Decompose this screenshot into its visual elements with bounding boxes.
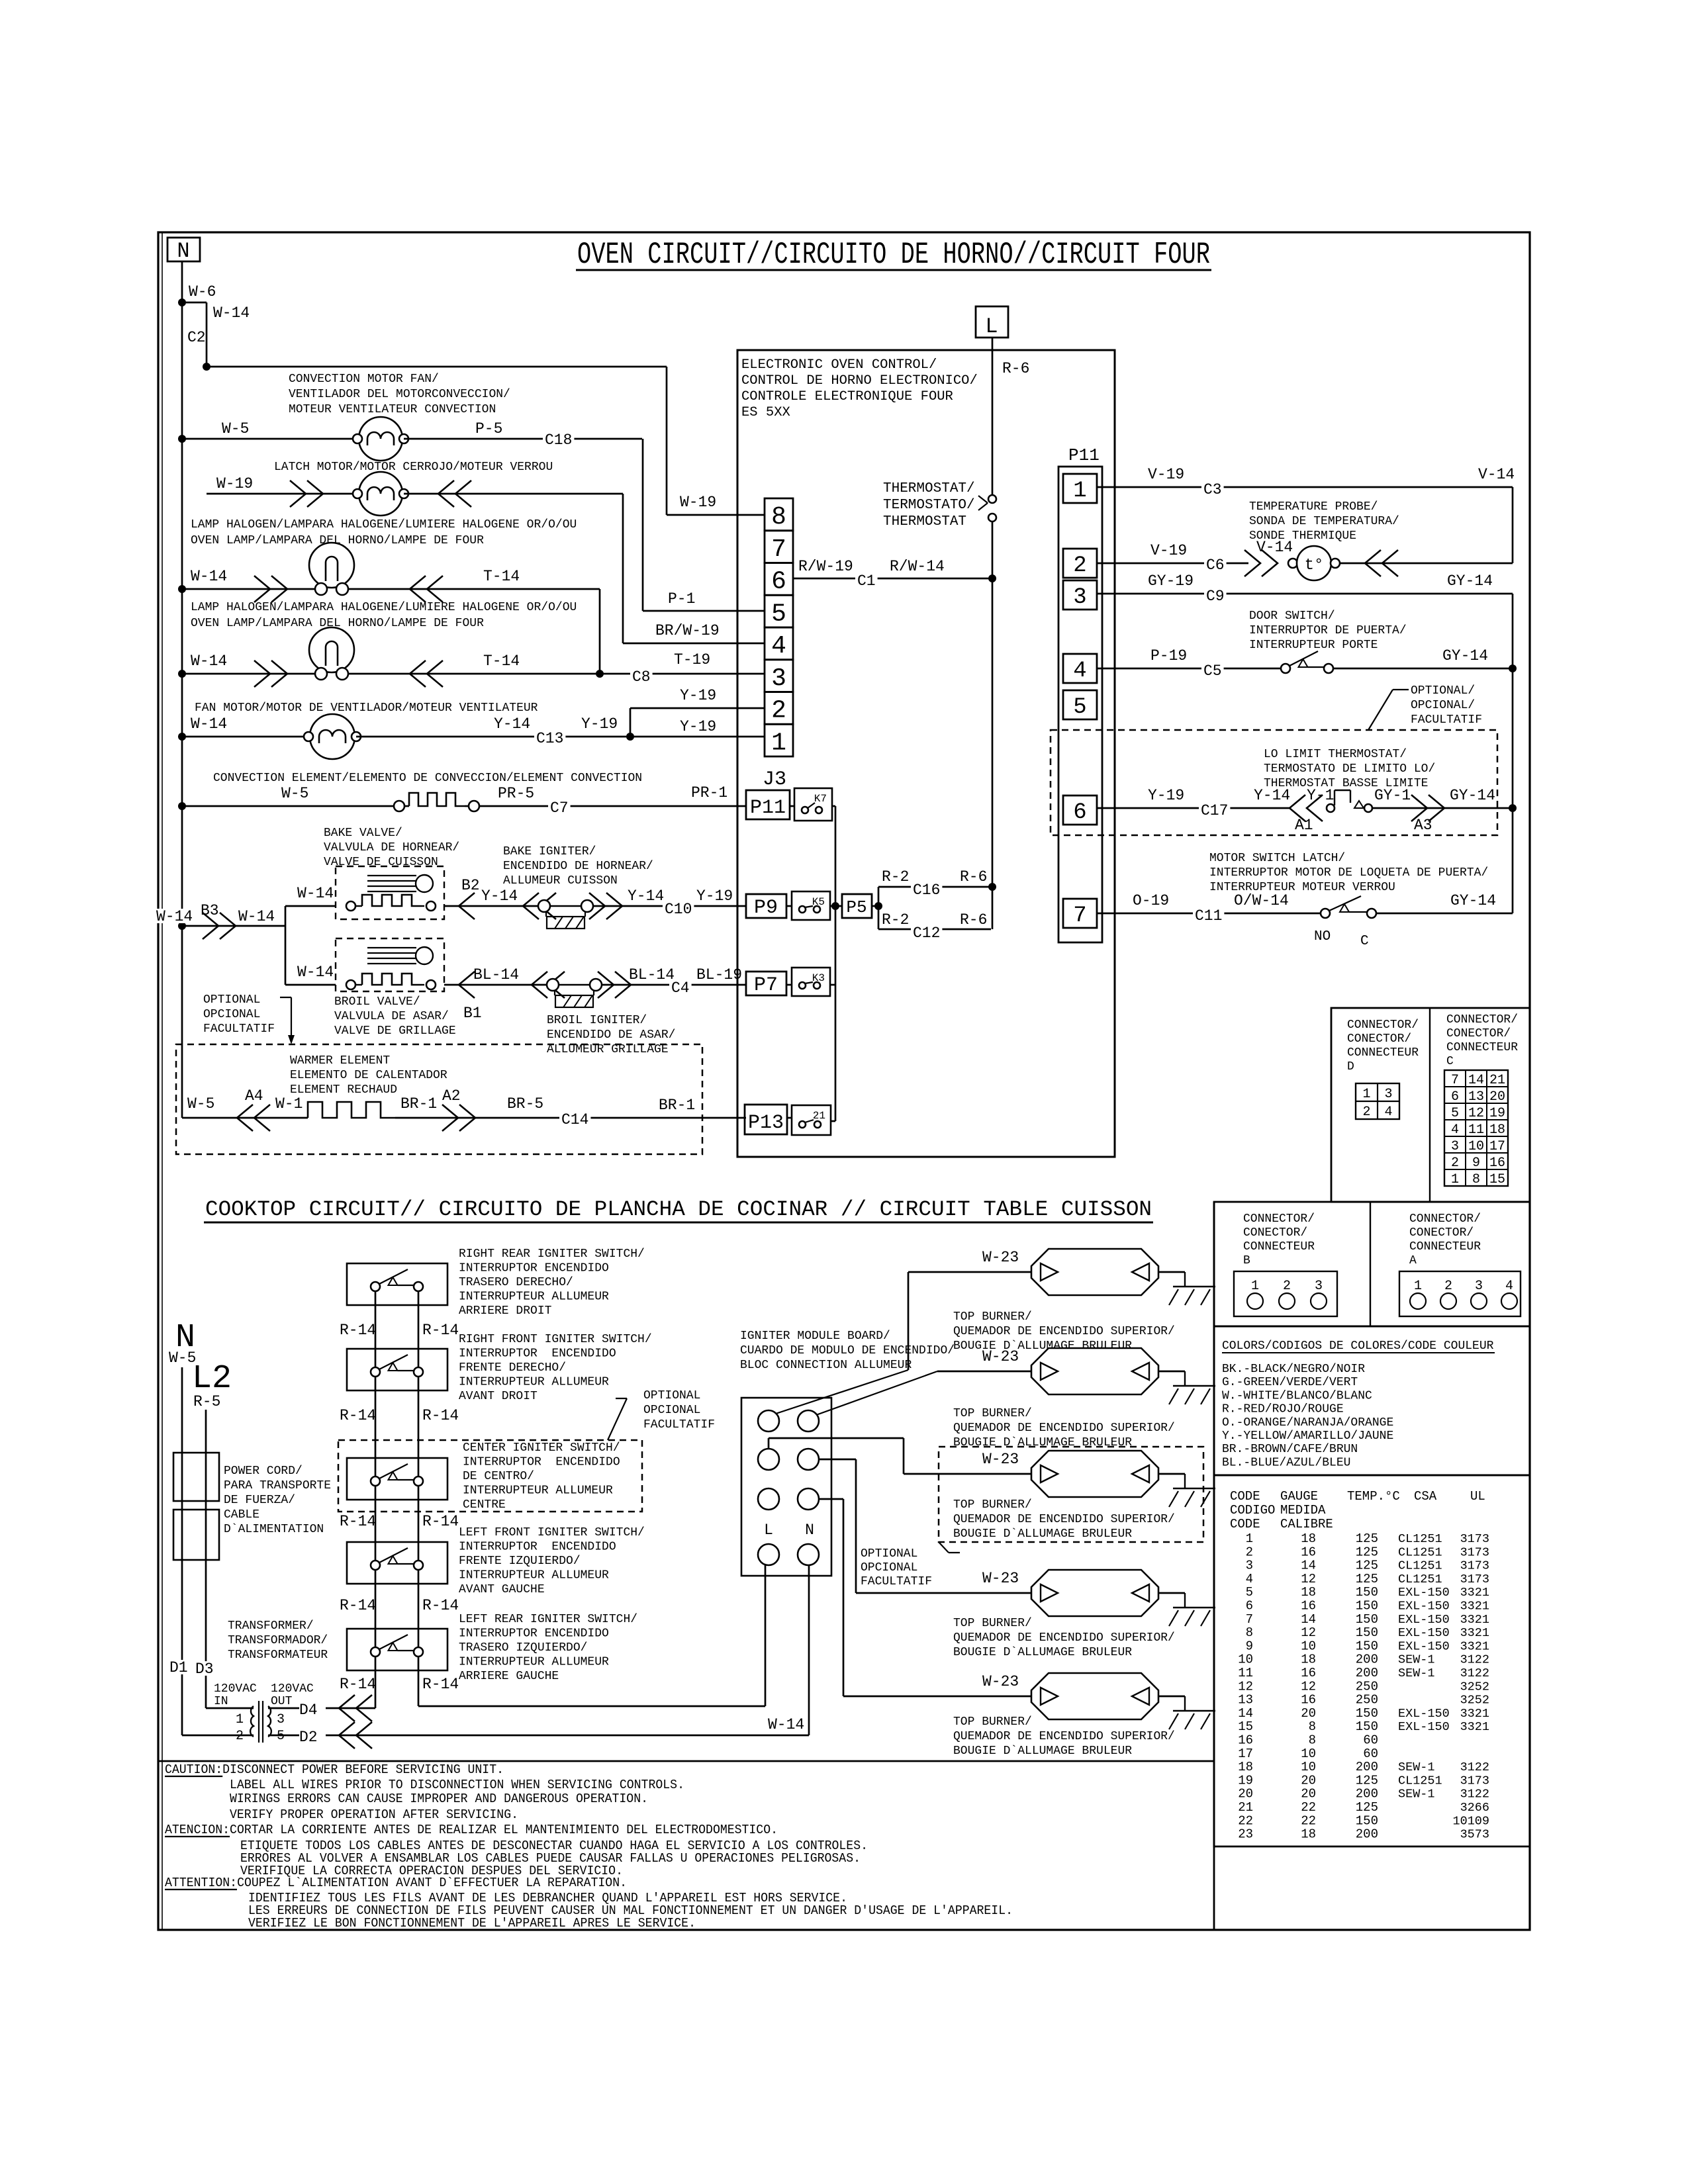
svg-text:OPTIONAL: OPTIONAL	[203, 993, 260, 1007]
svg-text:COOKTOP CIRCUIT// CIRCUITO DE: COOKTOP CIRCUIT// CIRCUITO DE PLANCHA DE…	[205, 1197, 1152, 1222]
svg-text:BL-14: BL-14	[473, 966, 519, 983]
svg-text:120VAC: 120VAC	[271, 1682, 314, 1696]
svg-text:W-14: W-14	[191, 653, 227, 670]
svg-text:LEFT FRONT IGNITER SWITCH/: LEFT FRONT IGNITER SWITCH/	[459, 1526, 645, 1539]
svg-text:C14: C14	[561, 1111, 588, 1128]
svg-text:IGNITER MODULE BOARD/: IGNITER MODULE BOARD/	[740, 1330, 890, 1343]
svg-text:CL1251: CL1251	[1398, 1532, 1442, 1546]
svg-text:CSA: CSA	[1414, 1489, 1437, 1504]
svg-text:1: 1	[1251, 1279, 1259, 1294]
svg-text:3173: 3173	[1460, 1774, 1489, 1788]
svg-text:16: 16	[1301, 1545, 1316, 1559]
svg-text:LEFT REAR IGNITER SWITCH/: LEFT REAR IGNITER SWITCH/	[459, 1613, 637, 1626]
wire PR-5 C7 PR-1 to P11	[479, 805, 746, 807]
svg-text:CONVECTION MOTOR FAN/: CONVECTION MOTOR FAN/	[289, 373, 439, 386]
svg-text:SONDA DE TEMPERATURA/: SONDA DE TEMPERATURA/	[1249, 515, 1399, 528]
svg-text:BL-19: BL-19	[696, 966, 742, 983]
svg-text:DE FUERZA/: DE FUERZA/	[224, 1494, 295, 1507]
svg-text:15: 15	[1489, 1172, 1505, 1187]
svg-text:TOP BURNER/: TOP BURNER/	[953, 1498, 1032, 1512]
svg-text:Y-19: Y-19	[1148, 787, 1184, 804]
svg-text:CALIBRE: CALIBRE	[1280, 1517, 1333, 1531]
colors box	[1214, 1326, 1530, 1475]
wire Y-14 C13 Y-19	[356, 736, 630, 738]
connector C grid	[1444, 1070, 1508, 1186]
pin 2	[1063, 549, 1097, 578]
node L (line terminal)	[976, 306, 1008, 338]
svg-text:3252: 3252	[1460, 1694, 1489, 1707]
ground chassis burner 3	[1158, 1473, 1185, 1475]
page border frame	[158, 232, 1530, 1930]
svg-text:22: 22	[1301, 1813, 1316, 1828]
svg-text:1: 1	[771, 729, 786, 757]
svg-text:V-14: V-14	[1478, 466, 1515, 483]
connector D grid	[1356, 1083, 1399, 1119]
svg-text:R-14: R-14	[422, 1513, 459, 1530]
svg-text:R-2: R-2	[882, 911, 909, 929]
warmer optional dashed box	[176, 1044, 702, 1154]
svg-text:CONNECTEUR: CONNECTEUR	[1446, 1041, 1518, 1054]
svg-text:INTERRUPTOR MOTOR DE LOQUETA D: INTERRUPTOR MOTOR DE LOQUETA DE PUERTA/	[1209, 866, 1488, 880]
svg-text:R-6: R-6	[960, 868, 987, 886]
svg-text:6: 6	[771, 568, 786, 596]
svg-text:C18: C18	[545, 432, 572, 449]
svg-text:EXL-150: EXL-150	[1398, 1639, 1450, 1653]
wire W-6 from N	[181, 261, 183, 302]
svg-text:IN: IN	[214, 1695, 228, 1708]
svg-text:Y-19: Y-19	[696, 887, 733, 905]
svg-text:POWER CORD/: POWER CORD/	[224, 1465, 303, 1478]
svg-text:23: 23	[1238, 1827, 1253, 1842]
igniter E1 bake	[538, 900, 550, 912]
svg-text:13: 13	[1468, 1089, 1484, 1105]
svg-text:CL1251: CL1251	[1398, 1545, 1442, 1559]
svg-text:K5: K5	[812, 896, 825, 908]
svg-text:R-14: R-14	[422, 1676, 459, 1693]
svg-text:C10: C10	[665, 901, 692, 918]
wire module to burner2	[816, 1371, 937, 1415]
svg-text:125: 125	[1356, 1800, 1378, 1815]
svg-text:16: 16	[1301, 1693, 1316, 1707]
node junction N / W-5	[178, 435, 186, 443]
svg-text:D1: D1	[169, 1659, 188, 1676]
svg-text:10: 10	[1301, 1760, 1316, 1774]
svg-text:4: 4	[1246, 1572, 1253, 1586]
svg-text:125: 125	[1356, 1545, 1378, 1559]
svg-text:W-14: W-14	[191, 568, 227, 585]
svg-text:SEW-1: SEW-1	[1398, 1653, 1435, 1667]
element R1 convection	[394, 801, 404, 811]
svg-text:MEDIDA: MEDIDA	[1280, 1503, 1326, 1518]
svg-text:RIGHT FRONT IGNITER SWITCH/: RIGHT FRONT IGNITER SWITCH/	[459, 1333, 652, 1346]
svg-text:12: 12	[1301, 1572, 1316, 1586]
svg-text:10: 10	[1468, 1139, 1484, 1154]
wire BL-14 broil igniter	[444, 984, 547, 986]
svg-text:21: 21	[1489, 1073, 1505, 1088]
igniter switch S7 center	[347, 1458, 447, 1500]
svg-text:BLOC CONNECTION ALLUMEUR: BLOC CONNECTION ALLUMEUR	[740, 1359, 912, 1372]
svg-text:ATENCION:CORTAR LA CORRIENTE A: ATENCION:CORTAR LA CORRIENTE ANTES DE RE…	[165, 1823, 778, 1837]
svg-text:9: 9	[1472, 1156, 1480, 1171]
svg-text:Y-1: Y-1	[1307, 787, 1334, 804]
svg-text:CUARDO DE MODULO DE ENCENDIDO/: CUARDO DE MODULO DE ENCENDIDO/	[740, 1344, 955, 1357]
svg-text:N: N	[177, 239, 189, 263]
svg-text:R-14: R-14	[422, 1597, 459, 1614]
empty box bottom right	[1213, 1202, 1215, 1930]
svg-text:7: 7	[1073, 903, 1086, 929]
svg-text:CONTROLE ELECTRONIQUE FOUR: CONTROLE ELECTRONIQUE FOUR	[741, 389, 953, 404]
svg-text:13: 13	[1238, 1693, 1253, 1707]
svg-text:TRASERO DERECHO/: TRASERO DERECHO/	[459, 1276, 573, 1289]
svg-text:OUT: OUT	[271, 1695, 293, 1708]
svg-text:PARA TRANSPORTE: PARA TRANSPORTE	[224, 1479, 331, 1492]
svg-text:BROIL VALVE/: BROIL VALVE/	[334, 995, 420, 1009]
svg-text:21: 21	[1238, 1800, 1253, 1815]
svg-text:TOP BURNER/: TOP BURNER/	[953, 1310, 1032, 1324]
svg-text:60: 60	[1363, 1747, 1378, 1761]
svg-text:8: 8	[1246, 1625, 1253, 1640]
wire N bus vertical	[181, 302, 183, 1118]
svg-text:D2: D2	[299, 1729, 318, 1746]
optional dashed box center switch	[338, 1440, 642, 1512]
svg-text:3321: 3321	[1460, 1600, 1489, 1614]
svg-text:CONECTOR/: CONECTOR/	[1347, 1032, 1411, 1046]
wire R-6 vertical to relays	[992, 578, 994, 929]
svg-text:TOP BURNER/: TOP BURNER/	[953, 1715, 1032, 1729]
svg-text:FACULTATIF: FACULTATIF	[643, 1418, 715, 1432]
wire L2 vertical D3	[205, 1410, 207, 1708]
svg-text:2: 2	[1246, 1545, 1253, 1559]
optional pointer	[1393, 689, 1409, 690]
node junction N / convection element	[178, 802, 186, 810]
node junction C13	[626, 733, 634, 741]
wire W-19 latch motor	[207, 493, 357, 495]
svg-text:LO LIMIT THERMOSTAT/: LO LIMIT THERMOSTAT/	[1264, 748, 1407, 761]
wire split to bake/broil valves	[285, 906, 287, 985]
svg-text:G.-GREEN/VERDE/VERT: G.-GREEN/VERDE/VERT	[1222, 1376, 1358, 1389]
wire T-14 lamp1 to C8	[348, 588, 600, 590]
svg-text:R-5: R-5	[193, 1393, 220, 1410]
pin 5	[1063, 690, 1097, 719]
svg-text:INTERRUPTOR ENCENDIDO: INTERRUPTOR ENCENDIDO	[459, 1627, 609, 1641]
power cord box	[173, 1453, 219, 1501]
svg-text:BL.-BLUE/AZUL/BLEU: BL.-BLUE/AZUL/BLEU	[1222, 1456, 1350, 1469]
svg-text:CODE: CODE	[1230, 1489, 1260, 1504]
svg-text:2: 2	[236, 1729, 244, 1744]
svg-text:ARRIERE DROIT: ARRIERE DROIT	[459, 1304, 552, 1318]
igniter E2 broil	[547, 979, 559, 991]
svg-text:VERIFIEZ LE BON FONCTIONNEMENT: VERIFIEZ LE BON FONCTIONNEMENT DE L'APPA…	[248, 1916, 696, 1931]
svg-text:CODE: CODE	[1230, 1517, 1260, 1531]
lamp DS1 halogen	[309, 543, 354, 588]
svg-text:T-14: T-14	[483, 653, 520, 670]
svg-text:2: 2	[1283, 1279, 1291, 1294]
svg-text:3321: 3321	[1460, 1613, 1489, 1627]
connector J3 pins	[765, 498, 793, 531]
node junction N / fan	[178, 733, 186, 741]
svg-text:P7: P7	[754, 974, 778, 997]
svg-text:ATTENTION:COUPEZ L`ALIMENTATIO: ATTENTION:COUPEZ L`ALIMENTATION AVANT D`…	[165, 1876, 627, 1890]
svg-text:P-19: P-19	[1150, 647, 1187, 664]
svg-text:3321: 3321	[1460, 1707, 1489, 1721]
node junction W-6/W-14	[178, 298, 186, 306]
svg-text:125: 125	[1356, 1572, 1378, 1586]
wire W-14 fan motor	[182, 736, 310, 738]
svg-text:TEMP.°C: TEMP.°C	[1347, 1489, 1400, 1504]
svg-text:RIGHT REAR IGNITER SWITCH/: RIGHT REAR IGNITER SWITCH/	[459, 1248, 645, 1261]
optional dashed box burner3	[939, 1447, 1203, 1542]
wire W-14 lamp 1	[182, 588, 321, 590]
svg-text:150: 150	[1356, 1612, 1378, 1627]
wire module L to right bus	[765, 1565, 767, 1706]
svg-text:BL-14: BL-14	[629, 966, 675, 983]
svg-text:ELEMENT RECHAUD: ELEMENT RECHAUD	[290, 1083, 397, 1097]
svg-text:150: 150	[1356, 1625, 1378, 1640]
svg-text:TEMPERATURE PROBE/: TEMPERATURE PROBE/	[1249, 500, 1378, 514]
wire P-19 C5 pin4	[1097, 668, 1281, 670]
svg-text:P9: P9	[754, 897, 778, 919]
svg-text:4: 4	[1384, 1105, 1392, 1120]
svg-text:Y-14: Y-14	[628, 887, 664, 905]
svg-text:5: 5	[1451, 1106, 1459, 1121]
svg-text:W-14: W-14	[213, 304, 250, 322]
svg-text:LAMP HALOGEN/LAMPARA HALOGENE/: LAMP HALOGEN/LAMPARA HALOGENE/LUMIERE HA…	[191, 518, 577, 531]
connector P5	[835, 905, 842, 907]
svg-text:GY-19: GY-19	[1148, 572, 1194, 590]
svg-text:17: 17	[1238, 1747, 1253, 1761]
svg-text:L: L	[985, 314, 998, 339]
connector P11 + relay K7	[746, 790, 790, 819]
svg-text:ELECTRONIC OVEN CONTROL/: ELECTRONIC OVEN CONTROL/	[741, 357, 937, 373]
svg-text:4: 4	[771, 632, 786, 660]
svg-text:3321: 3321	[1460, 1639, 1489, 1653]
svg-text:P11: P11	[750, 797, 786, 819]
svg-text:A3: A3	[1414, 817, 1432, 834]
svg-text:K7: K7	[814, 793, 827, 805]
svg-text:5: 5	[277, 1729, 285, 1744]
svg-text:C12: C12	[913, 925, 940, 942]
svg-text:TERMOSTATO/: TERMOSTATO/	[883, 498, 975, 513]
svg-text:INTERRUPTEUR ALLUMEUR: INTERRUPTEUR ALLUMEUR	[463, 1484, 613, 1498]
node N (neutral terminal)	[167, 238, 200, 261]
svg-text:VENTILADOR DEL MOTORCONVECCION: VENTILADOR DEL MOTORCONVECCION/	[289, 388, 510, 401]
ground chassis burner 5	[1158, 1696, 1185, 1698]
svg-text:2: 2	[1444, 1279, 1452, 1294]
svg-text:14: 14	[1301, 1612, 1316, 1627]
svg-text:C2: C2	[187, 329, 206, 346]
svg-text:18: 18	[1489, 1122, 1505, 1138]
node junction GY-14/lo-limit	[1509, 804, 1517, 812]
svg-text:C: C	[1446, 1055, 1454, 1068]
svg-text:19: 19	[1238, 1773, 1253, 1788]
svg-text:GY-1: GY-1	[1374, 787, 1411, 804]
svg-text:QUEMADOR DE ENCENDIDO SUPERIOR: QUEMADOR DE ENCENDIDO SUPERIOR/	[953, 1422, 1175, 1435]
svg-text:W-5: W-5	[187, 1095, 214, 1113]
svg-text:MOTEUR VENTILATEUR CONVECTION: MOTEUR VENTILATEUR CONVECTION	[289, 403, 496, 416]
node junction C1	[988, 574, 996, 582]
lo limit optional dashed box	[1051, 730, 1497, 835]
svg-text:TOP BURNER/: TOP BURNER/	[953, 1407, 1032, 1420]
svg-text:N: N	[805, 1522, 814, 1539]
svg-text:3: 3	[1246, 1559, 1253, 1573]
svg-text:O-19: O-19	[1133, 892, 1169, 909]
svg-text:20: 20	[1301, 1787, 1316, 1801]
connector P7 + relay K3	[746, 972, 786, 995]
svg-text:TRANSFORMADOR/: TRANSFORMADOR/	[228, 1634, 328, 1647]
wire probe to V-14 bus	[1340, 563, 1513, 565]
svg-text:VALVE DE GRILLAGE: VALVE DE GRILLAGE	[334, 1024, 456, 1038]
svg-text:QUEMADOR DE ENCENDIDO SUPERIOR: QUEMADOR DE ENCENDIDO SUPERIOR/	[953, 1730, 1175, 1743]
svg-text:CONECTOR/: CONECTOR/	[1446, 1027, 1511, 1040]
svg-text:THERMOSTAT: THERMOSTAT	[883, 514, 966, 529]
svg-text:W-23: W-23	[982, 1249, 1019, 1266]
svg-text:CODIGO: CODIGO	[1230, 1503, 1275, 1518]
svg-text:3173: 3173	[1460, 1572, 1489, 1586]
svg-text:150: 150	[1356, 1639, 1378, 1653]
wire W-5 warmer	[182, 1117, 308, 1119]
svg-text:INTERRUPTEUR ALLUMEUR: INTERRUPTEUR ALLUMEUR	[459, 1656, 609, 1669]
svg-text:14: 14	[1301, 1559, 1316, 1573]
svg-text:11: 11	[1468, 1122, 1484, 1138]
svg-text:W-6: W-6	[189, 283, 216, 300]
svg-text:60: 60	[1363, 1733, 1378, 1748]
wire latch to pin 4 BR/W-19	[404, 493, 623, 495]
bake valve FV1 (dashed)	[336, 866, 444, 919]
wire C2 branch	[182, 302, 207, 304]
svg-text:2: 2	[1073, 553, 1086, 578]
top burner B4	[1031, 1570, 1158, 1616]
svg-text:150: 150	[1356, 1719, 1378, 1734]
wire R-6 from L	[992, 338, 994, 495]
svg-text:R-14: R-14	[340, 1676, 376, 1693]
svg-text:WARMER ELEMENT: WARMER ELEMENT	[290, 1054, 390, 1068]
svg-text:W-1: W-1	[275, 1095, 303, 1113]
svg-text:LATCH MOTOR/MOTOR CERROJO/MOTE: LATCH MOTOR/MOTOR CERROJO/MOTEUR VERROU	[274, 461, 553, 474]
svg-text:15: 15	[1238, 1719, 1253, 1734]
svg-text:2: 2	[1451, 1156, 1459, 1171]
svg-text:GY-14: GY-14	[1447, 572, 1493, 590]
svg-text:INTERRUPTOR DE PUERTA/: INTERRUPTOR DE PUERTA/	[1249, 624, 1407, 637]
svg-text:3321: 3321	[1460, 1720, 1489, 1734]
svg-text:3: 3	[1475, 1279, 1483, 1294]
svg-text:CENTRE: CENTRE	[463, 1498, 506, 1512]
svg-text:125: 125	[1356, 1559, 1378, 1573]
svg-text:R-6: R-6	[1002, 360, 1029, 377]
svg-text:7: 7	[1246, 1612, 1253, 1627]
svg-text:7: 7	[771, 535, 786, 564]
svg-text:3122: 3122	[1460, 1760, 1489, 1774]
svg-text:INTERRUPTEUR ALLUMEUR: INTERRUPTEUR ALLUMEUR	[459, 1376, 609, 1389]
svg-text:18: 18	[1301, 1531, 1316, 1546]
svg-text:FACULTATIF: FACULTATIF	[861, 1575, 932, 1588]
svg-text:200: 200	[1356, 1653, 1378, 1667]
svg-text:1: 1	[1073, 478, 1086, 504]
svg-text:W-23: W-23	[982, 1570, 1019, 1587]
svg-text:3: 3	[1073, 585, 1086, 610]
svg-text:3122: 3122	[1460, 1653, 1489, 1667]
svg-text:P13: P13	[748, 1112, 784, 1134]
svg-text:CONECTOR/: CONECTOR/	[1243, 1226, 1307, 1240]
svg-text:3122: 3122	[1460, 1666, 1489, 1680]
svg-text:W-19: W-19	[216, 475, 253, 492]
ground chassis burner 1	[1158, 1271, 1185, 1273]
svg-text:R-14: R-14	[340, 1597, 376, 1614]
svg-text:CAUTION:DISCONNECT POWER BEFOR: CAUTION:DISCONNECT POWER BEFORE SERVICIN…	[165, 1762, 504, 1777]
node junction P5 out	[874, 902, 882, 910]
connector B pins	[1234, 1271, 1337, 1316]
svg-text:CONTROL DE HORNO ELECTRONICO/: CONTROL DE HORNO ELECTRONICO/	[741, 373, 978, 388]
svg-text:DE CENTRO/: DE CENTRO/	[463, 1470, 534, 1483]
svg-text:Y-14: Y-14	[494, 715, 530, 733]
svg-text:EXL-150: EXL-150	[1398, 1600, 1450, 1614]
door switch S2	[1281, 664, 1290, 673]
svg-text:2: 2	[771, 697, 786, 725]
svg-text:120VAC: 120VAC	[214, 1682, 257, 1696]
svg-text:10: 10	[1301, 1639, 1316, 1653]
svg-text:12: 12	[1301, 1625, 1316, 1640]
svg-text:OPCIONAL/: OPCIONAL/	[1411, 699, 1475, 712]
svg-text:18: 18	[1301, 1653, 1316, 1667]
svg-text:R/W-19: R/W-19	[798, 558, 853, 575]
svg-text:CONECTOR/: CONECTOR/	[1409, 1226, 1474, 1240]
svg-text:B1: B1	[463, 1005, 482, 1022]
svg-text:BOUGIE D`ALLUMAGE BRULEUR: BOUGIE D`ALLUMAGE BRULEUR	[953, 1527, 1132, 1541]
svg-text:TOP BURNER/: TOP BURNER/	[953, 1617, 1032, 1630]
svg-text:BAKE IGNITER/: BAKE IGNITER/	[503, 845, 596, 858]
svg-text:GAUGE: GAUGE	[1280, 1489, 1318, 1504]
svg-text:C11: C11	[1195, 907, 1222, 925]
svg-text:C5: C5	[1203, 662, 1222, 680]
svg-text:P11: P11	[1068, 445, 1100, 465]
svg-text:20: 20	[1301, 1706, 1316, 1721]
optional pointer arrow	[280, 997, 291, 998]
svg-text:3321: 3321	[1460, 1626, 1489, 1640]
svg-text:8: 8	[771, 503, 786, 531]
svg-text:INTERRUPTOR ENCENDIDO: INTERRUPTOR ENCENDIDO	[463, 1456, 620, 1469]
svg-text:T-14: T-14	[483, 568, 520, 585]
svg-text:THERMOSTAT/: THERMOSTAT/	[883, 481, 975, 496]
svg-text:CONNECTOR/: CONNECTOR/	[1409, 1212, 1481, 1226]
svg-text:R-6: R-6	[960, 911, 987, 929]
svg-text:BR-5: BR-5	[507, 1095, 543, 1113]
svg-text:GY-14: GY-14	[1450, 787, 1495, 804]
motor M2 latch	[359, 472, 402, 516]
top burner B2	[1031, 1348, 1158, 1394]
lamp DS2 halogen	[309, 627, 354, 672]
svg-text:18: 18	[1301, 1585, 1316, 1600]
svg-text:18: 18	[1238, 1760, 1253, 1774]
svg-text:MOTOR SWITCH LATCH/: MOTOR SWITCH LATCH/	[1209, 852, 1345, 865]
wire C8 T-19 to pin 3	[600, 673, 765, 675]
svg-text:CL1251: CL1251	[1398, 1572, 1442, 1586]
svg-text:W-14: W-14	[297, 885, 334, 902]
svg-text:DOOR SWITCH/: DOOR SWITCH/	[1249, 610, 1335, 623]
wire module to burner4	[819, 1459, 856, 1461]
svg-text:C6: C6	[1206, 557, 1225, 574]
svg-text:21: 21	[813, 1110, 825, 1122]
svg-text:BOUGIE D`ALLUMAGE BRULEUR: BOUGIE D`ALLUMAGE BRULEUR	[953, 1745, 1132, 1758]
svg-text:1: 1	[1414, 1279, 1422, 1294]
svg-text:1: 1	[1362, 1087, 1370, 1102]
svg-text:V-14: V-14	[1256, 539, 1293, 556]
svg-text:V-19: V-19	[1148, 466, 1184, 483]
wire W-5 convection fan	[182, 438, 357, 440]
svg-text:GY-14: GY-14	[1442, 647, 1488, 664]
wire V-14 bus down	[1512, 487, 1514, 563]
svg-text:4: 4	[1451, 1122, 1459, 1138]
svg-text:11: 11	[1238, 1666, 1253, 1680]
svg-text:EXL-150: EXL-150	[1398, 1613, 1450, 1627]
